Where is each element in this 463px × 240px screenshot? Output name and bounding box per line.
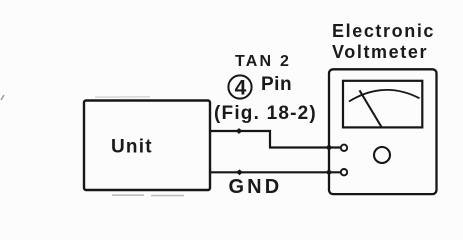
meter needle — [360, 90, 382, 127]
meter face — [343, 81, 422, 128]
wire GND from Unit to terminal — [210, 171, 341, 173]
unit box — [84, 101, 210, 191]
svg-text:Unit: Unit — [111, 136, 153, 157]
voltmeter enclosure — [329, 69, 437, 194]
junction dot at voltmeter edge (TAN2) — [327, 145, 332, 150]
label TAN 2 — [235, 53, 291, 71]
meter scale arc — [349, 90, 420, 102]
terminal GND — [341, 169, 347, 175]
terminal TAN2 pin4 — [341, 145, 347, 151]
wire TAN2 horizontal from Unit — [210, 130, 271, 132]
wire TAN2 horizontal to terminal — [269, 146, 341, 148]
label Electronic Voltmeter — [332, 21, 435, 63]
svg-text:4: 4 — [235, 76, 247, 99]
junction arrow on TAN2 wire — [236, 128, 243, 134]
junction dot at voltmeter edge (GND) — [327, 170, 332, 175]
label Pin — [261, 74, 292, 96]
junction arrow on GND wire — [236, 169, 243, 175]
label GND — [229, 176, 283, 199]
knob — [374, 147, 390, 163]
label (Fig. 18-2) — [214, 103, 317, 125]
circle around pin number 4 — [228, 75, 251, 98]
wire TAN2 vertical step — [269, 130, 271, 148]
